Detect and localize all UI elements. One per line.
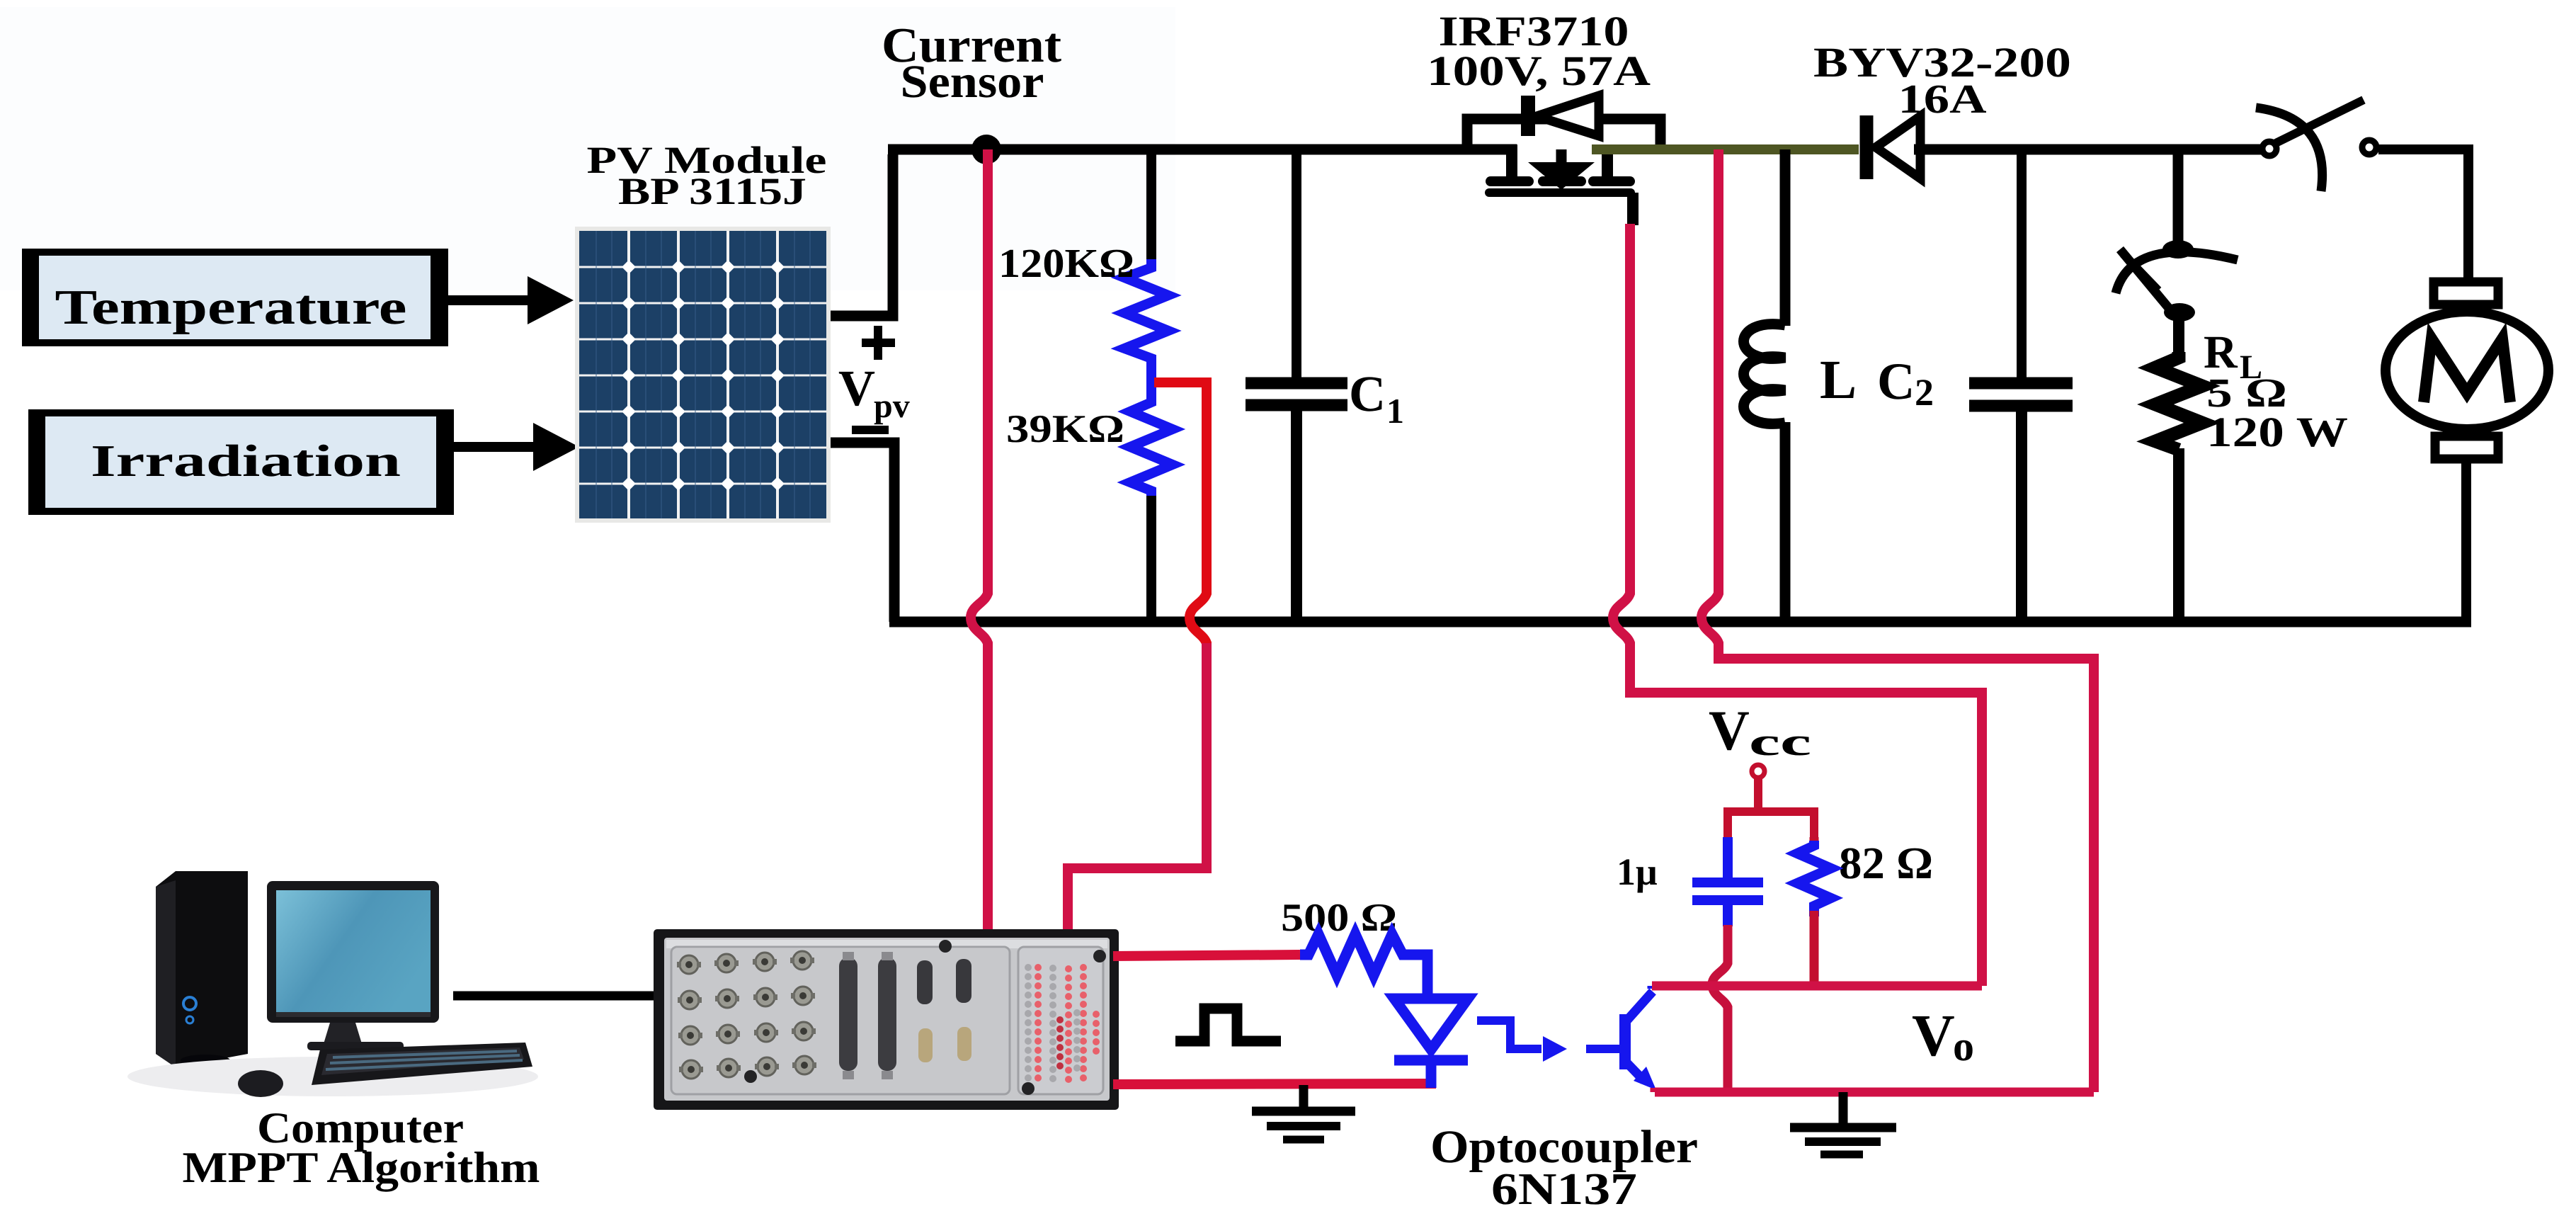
- MOSFET gate lead black: [1627, 193, 1639, 225]
- source sense crimson wire (hop over bus): [1702, 149, 2094, 1092]
- pulse signal symbol: [1175, 1009, 1281, 1041]
- MOSFET source lead: [1602, 149, 1613, 180]
- DAQ middle connectors: [839, 940, 971, 1079]
- keyboard: [312, 1043, 532, 1085]
- computer tower: [156, 871, 248, 1067]
- svg-text:C: C: [1877, 353, 1915, 411]
- plus sign: [862, 326, 895, 360]
- switch S2 arc: [2116, 252, 2238, 293]
- svg-text:6N137: 6N137: [1491, 1164, 1637, 1214]
- capacitor 1u: [1723, 837, 1733, 878]
- capacitor C1: [1292, 149, 1301, 377]
- motor M bottom brush: [2435, 436, 2498, 459]
- motor bottom wire: [2461, 459, 2471, 622]
- svg-text:39KΩ: 39KΩ: [1006, 407, 1124, 451]
- MOSFET Q1 body-diode loop: [1467, 119, 1660, 147]
- switch S2 blade: [2120, 249, 2175, 316]
- svg-text:82 Ω: 82 Ω: [1839, 838, 1933, 888]
- svg-text:o: o: [1953, 1023, 1974, 1069]
- Irradiation box: [28, 409, 454, 515]
- inductor L coil: [1744, 324, 1786, 424]
- svg-text:120 W: 120 W: [2206, 409, 2348, 455]
- svg-text:pv: pv: [874, 387, 910, 425]
- svg-text:V: V: [1912, 1003, 1955, 1069]
- Temperature box: [22, 249, 448, 346]
- DAQ interface unit: [654, 929, 1119, 1110]
- motor M letter: [2424, 339, 2510, 402]
- Vcc terminal: [1752, 765, 1765, 778]
- computer shadow: [127, 1057, 538, 1096]
- inductor L branch top: [1780, 149, 1791, 326]
- DAQ LED panel: [1022, 950, 1106, 1095]
- svg-text:2: 2: [1915, 371, 1934, 414]
- MOSFET drain lead: [1506, 144, 1517, 180]
- ground G1: [1252, 1085, 1355, 1140]
- svg-text:MPPT Algorithm: MPPT Algorithm: [183, 1144, 540, 1192]
- voltage divider branch: [1146, 149, 1156, 259]
- MOSFET body arrow: [1556, 149, 1567, 164]
- collector rail: [1652, 982, 1982, 991]
- svg-text:V: V: [1709, 700, 1750, 762]
- svg-text:500 Ω: 500 Ω: [1281, 896, 1397, 940]
- switch S1 arc: [2256, 108, 2323, 191]
- phototransistor Q2: [1624, 992, 1653, 1081]
- bottom ground bus: [889, 617, 2471, 627]
- svg-text:Irradiation: Irradiation: [91, 436, 401, 486]
- Vpv minus terminal wire: [831, 443, 894, 622]
- svg-text:Sensor: Sensor: [901, 56, 1044, 108]
- arrow Irradiation to PV: [454, 423, 579, 471]
- motor M body: [2386, 312, 2548, 429]
- resistor 120K: [1124, 259, 1168, 394]
- switch S2 upper terminal: [2162, 240, 2194, 259]
- light path step arrow: [1477, 1021, 1541, 1049]
- wire computer to DAQ: [453, 992, 655, 1001]
- switch S1 right terminal: [2362, 140, 2376, 154]
- resistor 82 ohm: [1810, 837, 1819, 844]
- gate drive crimson wire down (hop over bus) to collector rail: [1613, 224, 1982, 986]
- PV module BP3115J: [575, 227, 831, 523]
- resistor RL: [2173, 320, 2184, 352]
- motor M top brush: [2434, 282, 2498, 305]
- top bus segment 2 (diode to switch): [1914, 144, 2262, 155]
- wire switch to motor: [2378, 149, 2468, 283]
- arrow Temperature to PV: [448, 276, 574, 324]
- switch S1 blade: [2276, 100, 2364, 143]
- svg-text:1: 1: [1386, 391, 1404, 431]
- switch S2 cross stroke: [2124, 254, 2158, 290]
- cap lead crosses collector rail with hop: [1712, 925, 1728, 1092]
- resistor 500 ohm: [1300, 934, 1427, 999]
- top bus segment 1 (PV to MOSFET drain): [888, 144, 1517, 155]
- svg-text:1μ: 1μ: [1617, 851, 1658, 893]
- red wire DAQ out bottom: [1113, 1084, 1436, 1084]
- svg-text:16A: 16A: [1898, 76, 1987, 122]
- svg-text:cc: cc: [1749, 720, 1811, 764]
- svg-text:C: C: [1349, 365, 1386, 422]
- svg-text:100V, 57A: 100V, 57A: [1427, 47, 1651, 94]
- resistor 39K: [1130, 394, 1173, 496]
- body diode triangle: [1537, 96, 1599, 136]
- divider tap red wire (hop over bus) to DAQ: [1068, 382, 1207, 932]
- ground G2: [1790, 1092, 1896, 1154]
- optocoupler LED: [1394, 999, 1468, 1050]
- switch S2 lower terminal: [2164, 303, 2195, 322]
- red wire DAQ out top: [1113, 955, 1300, 956]
- MOSFET channel pads: [1486, 176, 1635, 186]
- minus sign: [852, 426, 889, 434]
- Vpv plus terminal wire: [831, 154, 893, 316]
- switch S1 left terminal: [2262, 142, 2276, 156]
- svg-text:L: L: [1820, 348, 1857, 410]
- emitter rail: [1655, 1088, 2094, 1097]
- current sensor junction node: [971, 135, 1001, 164]
- MOSFET gate line: [1485, 188, 1635, 197]
- current sensor crimson wire down to DAQ (hop over bus): [971, 149, 988, 932]
- capacitor C2: [2017, 149, 2027, 377]
- body diode cathode bar: [1521, 96, 1535, 136]
- olive node wire (switch node): [1592, 144, 1859, 154]
- svg-text:120KΩ: 120KΩ: [998, 240, 1134, 286]
- svg-text:Temperature: Temperature: [55, 280, 407, 335]
- monitor: [267, 881, 439, 1050]
- svg-text:V: V: [838, 360, 875, 416]
- DAQ BNC connectors: [677, 950, 816, 1083]
- RL branch wire from bus: [2173, 149, 2184, 244]
- diode BYV32-200: [1860, 115, 1874, 179]
- svg-text:BP 3115J: BP 3115J: [618, 170, 807, 212]
- mouse: [238, 1070, 283, 1097]
- Vcc split loop: [1728, 812, 1814, 840]
